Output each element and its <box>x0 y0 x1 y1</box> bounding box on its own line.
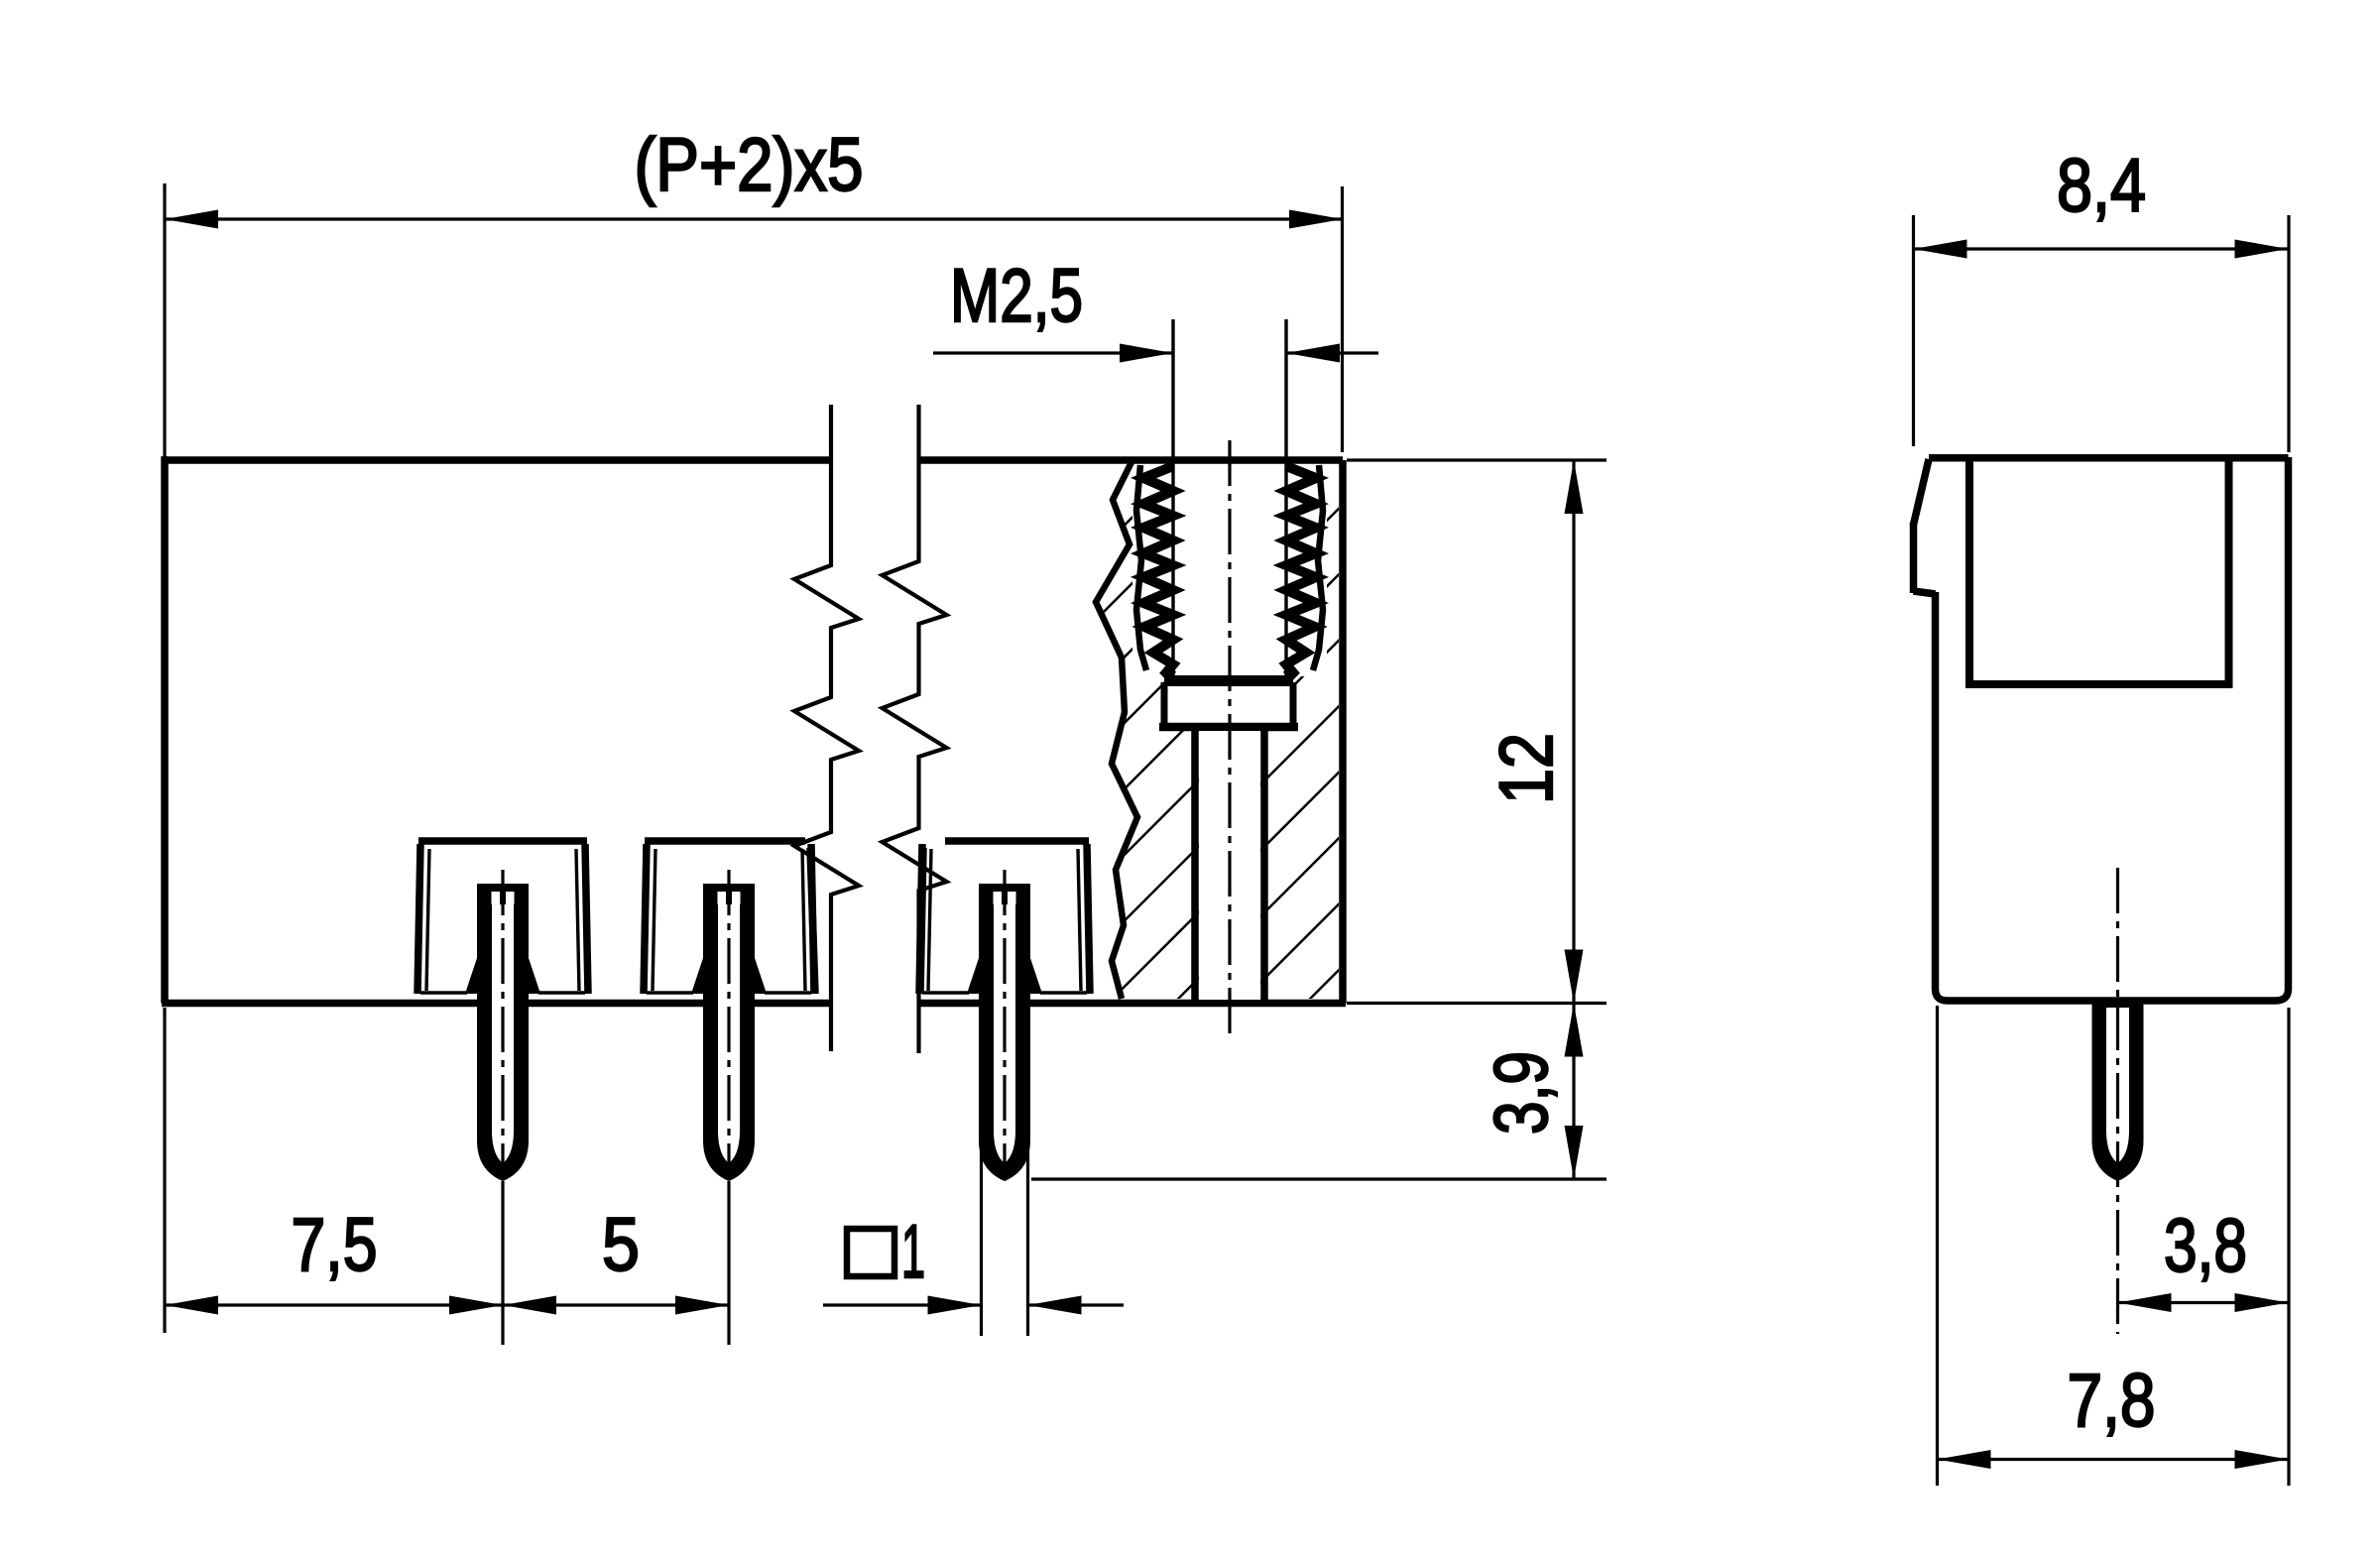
arrow 3,8 left <box>2118 1293 2172 1312</box>
pin body x735 <box>703 884 755 1181</box>
shaft right wall <box>1260 731 1268 1000</box>
arrow 7,5 right <box>449 1296 503 1315</box>
pin pocket 3 left wall <box>920 848 923 994</box>
arrow 3,8 right <box>2235 1293 2289 1312</box>
svg-text:3,8: 3,8 <box>2164 1204 2247 1288</box>
extension line pin 1 centre <box>501 1181 504 1345</box>
pin pocket top edge x507 <box>418 837 587 845</box>
dimension line M2,5 right tail <box>1286 351 1378 354</box>
pin core white x735 <box>718 904 740 1163</box>
extension line pin tip level <box>1031 1177 1606 1180</box>
pin body x507 <box>477 884 529 1181</box>
body right edge <box>1339 460 1347 1004</box>
dimension line 12 and 3,9 <box>1572 460 1575 1179</box>
insert outer edge left <box>1136 465 1146 670</box>
pocket floor line left x507 <box>420 991 467 994</box>
pin body x1013 <box>979 884 1030 1181</box>
thread bore right line / M2,5 extension <box>1284 319 1287 677</box>
insert outer edge right <box>1313 465 1323 670</box>
thread teeth right band <box>1286 466 1316 676</box>
dimension line 7,5 and 5 <box>165 1303 729 1306</box>
body top edge left segment <box>162 456 831 464</box>
body top edge right segment <box>919 456 1344 464</box>
pin centre line x735 <box>727 870 730 1178</box>
pin pocket left wall x735 <box>644 844 647 994</box>
arrow right (P+2)x5 <box>1289 210 1343 229</box>
pocket floor line left x1013 <box>922 991 969 994</box>
pin pocket top edge x1013 <box>945 837 1089 845</box>
collar right wall <box>1290 682 1297 729</box>
pin pocket right wall x735 <box>811 844 814 994</box>
arrow M2,5 left <box>1120 344 1173 363</box>
extension line body left edge (P+2)x5 <box>163 183 166 460</box>
dimension line 3,8 <box>2118 1301 2289 1304</box>
extension line 8,4 left <box>1912 215 1915 446</box>
dimension line 8,4 <box>1914 247 2289 250</box>
extension line pin 2 centre <box>727 1181 730 1345</box>
dimension line 7,8 <box>1938 1458 2289 1461</box>
extension line body bottom right <box>1347 1002 1606 1005</box>
extension line pin3 left edge <box>980 1150 983 1336</box>
side recess opening <box>1969 458 2229 684</box>
insert centre line <box>1228 440 1231 1041</box>
dimension line square-1 left tail <box>823 1303 982 1306</box>
pin pocket left inner line x507 <box>426 849 429 991</box>
extension line right for (P+2)x5 <box>1341 186 1344 452</box>
arrow 12 top <box>1565 460 1584 514</box>
pin pocket left wall x1013 <box>919 844 922 994</box>
shaft left wall <box>1191 731 1199 1000</box>
pin pocket right inner line x507 <box>576 849 579 991</box>
square symbol of square-1 <box>847 1229 894 1276</box>
pin pocket right wall x1013 <box>1087 844 1090 994</box>
break line left <box>794 405 859 1051</box>
thread bore left line / M2,5 extension <box>1171 319 1174 677</box>
arrow square-1 left <box>928 1296 982 1315</box>
svg-text:8,4: 8,4 <box>2057 144 2146 228</box>
break line right <box>883 405 947 1053</box>
thread teeth left band <box>1143 466 1173 676</box>
arrow 7,5 left <box>165 1296 218 1315</box>
pin flare left x735 <box>691 958 703 994</box>
side profile chamfer <box>1914 459 1930 525</box>
extension line body top right <box>1347 458 1606 461</box>
arrow M2,5 right <box>1286 344 1340 363</box>
body left edge <box>161 456 169 1003</box>
pin flare left x507 <box>465 958 477 994</box>
arrow left (P+2)x5 <box>165 210 218 229</box>
collar bottom edge <box>1159 723 1298 732</box>
pin top notches x507 <box>492 892 501 904</box>
side profile latch vertical <box>1910 523 1918 593</box>
extension line 8,4 right <box>2287 215 2290 452</box>
svg-text:7,5: 7,5 <box>292 1203 378 1287</box>
extension line pin3 right edge <box>1026 1150 1029 1336</box>
pocket floor line right x1013 <box>1040 991 1087 994</box>
thread zone background <box>1132 460 1327 676</box>
arrow square-1 right <box>1028 1296 1082 1315</box>
pin centre line x1013 <box>1003 870 1006 1178</box>
irregular section boundary line <box>1096 462 1137 999</box>
screw clearance shaft <box>1199 731 1260 1000</box>
svg-text:3,9: 3,9 <box>1480 1051 1564 1135</box>
svg-text:(P+2)x5: (P+2)x5 <box>635 123 864 207</box>
arrow 12 bottom <box>1565 950 1584 1004</box>
arrow 7,8 left <box>1938 1450 1991 1469</box>
insert collar <box>1164 686 1293 727</box>
pocket floor line right x735 <box>765 991 811 994</box>
side body top edge <box>1929 454 2289 462</box>
arrow 5 right <box>675 1296 729 1315</box>
pin top notches x1013 <box>994 892 1003 904</box>
dimension line (P+2)x5 <box>165 217 1343 220</box>
extension line 3,8 right / body right lower <box>2287 1008 2290 1486</box>
arrow 3,9 top <box>1565 1004 1584 1057</box>
pin top notches x735 <box>718 892 727 904</box>
pin flare right x507 <box>529 958 540 994</box>
pin pocket left inner line x735 <box>653 849 655 991</box>
side body right edge and bottom <box>1936 457 2289 1001</box>
svg-text:M2,5: M2,5 <box>950 254 1083 338</box>
extension line 7,8 left <box>1936 1006 1939 1486</box>
pin pocket right inner line x735 <box>802 849 805 991</box>
svg-text:7,8: 7,8 <box>2068 1359 2156 1443</box>
arrow 5 left <box>503 1296 556 1315</box>
side pin core white <box>2106 1008 2129 1163</box>
svg-text:5: 5 <box>602 1203 640 1287</box>
section hatching of housing material <box>1096 462 1339 999</box>
pocket floor line right x507 <box>538 991 585 994</box>
pin pocket right wall x507 <box>585 844 588 994</box>
dimension line square-1 right tail <box>1028 1303 1125 1306</box>
arrow 7,8 right <box>2235 1450 2289 1469</box>
pin pocket left inner line x1013 <box>928 849 931 991</box>
side pin centre line <box>2116 868 2119 1334</box>
pin core white x1013 <box>994 904 1015 1163</box>
collar left wall <box>1161 682 1168 729</box>
svg-text:1: 1 <box>901 1210 925 1294</box>
arrow 8,4 right <box>2235 240 2289 259</box>
pin core white x507 <box>492 904 514 1163</box>
pin pocket right inner line x1013 <box>1078 849 1081 991</box>
pin pocket left wall x507 <box>417 844 420 994</box>
pin pocket 2 right wall lower part <box>810 848 815 994</box>
pin flare left x1013 <box>967 958 979 994</box>
body bottom edge left segment <box>162 1000 831 1008</box>
body bottom edge right segment <box>919 1000 1347 1008</box>
extension line left edge lower <box>163 1008 166 1333</box>
side pin body <box>2092 1004 2144 1181</box>
side profile step <box>1914 591 1936 594</box>
arrow 8,4 left <box>1914 240 1967 259</box>
pin flare right x735 <box>755 958 767 994</box>
dimension line M2,5 left tail <box>933 351 1173 354</box>
pin centre line x507 <box>501 870 504 1178</box>
arrow 3,9 bottom <box>1565 1126 1584 1179</box>
pocket floor line left x735 <box>647 991 693 994</box>
thread bore bottom bar <box>1164 675 1293 686</box>
pin flare right x1013 <box>1030 958 1042 994</box>
pin pocket top edge x735 <box>645 837 805 845</box>
svg-text:12: 12 <box>1485 733 1569 804</box>
